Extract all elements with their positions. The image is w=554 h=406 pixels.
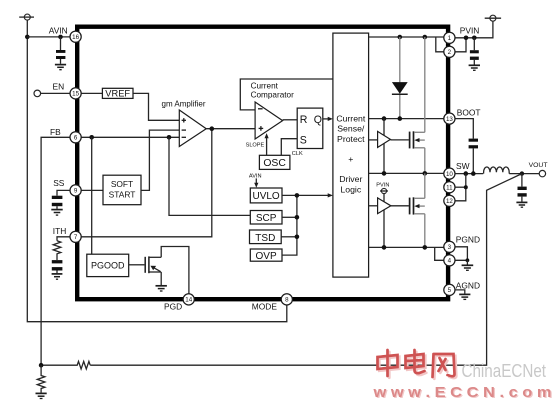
svg-text:5: 5 [448, 287, 452, 294]
svg-text:gm Amplifier: gm Amplifier [162, 100, 206, 109]
resistor R-FB-bottom vertical [37, 365, 45, 392]
svg-text:VREF: VREF [105, 89, 130, 99]
svg-text:SOFT: SOFT [111, 179, 133, 189]
pin 10 SW [444, 168, 455, 179]
block SOFT START [103, 175, 141, 205]
node FB to SCP junction [167, 135, 172, 140]
svg-text:3: 3 [448, 244, 452, 251]
node SW fet junction [423, 171, 428, 176]
terminal VOUT [539, 170, 545, 176]
svg-text:8: 8 [285, 297, 289, 304]
block PGOOD [87, 254, 129, 276]
capacitor C-SS [52, 196, 63, 209]
wire AVIN arrow into UVLO [254, 178, 258, 187]
capacitor C-ITH [52, 260, 63, 273]
wire AGND to ground [455, 290, 465, 294]
svg-text:S: S [300, 135, 307, 147]
node PGND driver junction [382, 245, 387, 250]
svg-text:ChinaECNet: ChinaECNet [462, 360, 547, 381]
svg-text:w w w . E C C N . c o m: w w w . E C C N . c o m [372, 384, 551, 401]
transistor high side NMOS [410, 131, 425, 148]
wire ITH external [57, 237, 70, 241]
wire SW pins strap [455, 174, 466, 201]
wire FB to PGOOD monitor [91, 137, 93, 254]
svg-text:PGOOD: PGOOD [91, 261, 125, 271]
buffer high side gate driver [378, 131, 391, 147]
node UVLO bus junction [295, 193, 300, 198]
inductor L1 [484, 167, 510, 174]
ground below C-PVIN [469, 65, 480, 70]
svg-text:PVIN: PVIN [460, 26, 480, 36]
wire PVIN external to power flag [455, 21, 493, 38]
pin 2 PVIN [444, 46, 455, 57]
ground PGND [462, 265, 474, 270]
pin 11 SW [444, 182, 455, 193]
label PGND [456, 235, 480, 245]
label CLK [292, 151, 303, 157]
wire SS pin to SOFT START [81, 189, 103, 191]
wire EN pin to VREF [81, 92, 102, 94]
svg-text:7: 7 [74, 234, 78, 241]
wire PGND rail [369, 247, 444, 260]
pin 15 EN [70, 88, 81, 99]
watermark ChinaECNet [462, 360, 547, 381]
ground below C-SS [51, 210, 62, 216]
pin 6 FB [70, 132, 81, 143]
svg-text:AVIN: AVIN [49, 26, 68, 36]
svg-text:MODE: MODE [252, 301, 278, 311]
wire comparator output to R input [283, 119, 298, 121]
pin 1 PVIN [444, 32, 455, 43]
label VOUT [529, 162, 548, 169]
svg-text:AVIN: AVIN [249, 173, 262, 179]
node BOOT cap SW junction [471, 171, 476, 176]
wire ITH internal to gm output [81, 129, 212, 237]
ground AGND [459, 294, 470, 299]
svg-text:10: 10 [446, 171, 453, 178]
wire inductor to VOUT [509, 173, 539, 175]
pin 16 AVIN [70, 31, 81, 42]
node PGND strap junction [466, 258, 470, 262]
label PVIN internal [376, 183, 389, 189]
node gm output ITH junction [210, 126, 215, 131]
svg-text:OSC: OSC [263, 158, 286, 169]
wire high side gate [390, 139, 409, 141]
wire protection bus to driver logic arrow [281, 193, 333, 255]
wire VIN rail down left side and along bottom to MODE pin [27, 20, 287, 322]
svg-text:Driver: Driver [339, 174, 362, 184]
capacitor C-VOUT [518, 174, 527, 202]
resistor R-ITH [53, 241, 61, 260]
label PGD [164, 301, 182, 311]
label AGND [456, 281, 480, 291]
node HS drain junction [423, 35, 428, 40]
svg-text:EN: EN [53, 82, 65, 92]
block UVLO [250, 188, 282, 203]
block Current Sense Protect Driver Logic [333, 33, 369, 277]
wire OSC clock to S input [281, 139, 297, 156]
block VREF [102, 88, 133, 98]
capacitor C-PVIN [470, 38, 479, 65]
svg-text:START: START [109, 190, 136, 200]
svg-text:CLK: CLK [292, 151, 303, 157]
node BOOT driver junction [382, 116, 387, 121]
wire SOFT START to gm amp input [141, 130, 179, 190]
watermark 中电网 drawn as strokes [378, 350, 457, 379]
svg-text:1: 1 [448, 35, 452, 42]
node AVIN cap junction [58, 35, 63, 40]
wire high side source to SW rail [424, 148, 426, 174]
svg-text:BOOT: BOOT [457, 108, 481, 118]
svg-text:ITH: ITH [53, 226, 67, 236]
svg-text:SS: SS [53, 178, 65, 188]
wire PGND to ground [466, 260, 468, 264]
label BOOT [457, 108, 481, 118]
svg-text:2: 2 [448, 49, 452, 56]
block SCP [250, 211, 282, 225]
IC body outline [77, 27, 448, 300]
ground below C-ITH [52, 274, 63, 279]
wire FB external down to divider [41, 137, 70, 365]
svg-text:Logic: Logic [340, 184, 361, 194]
ground below C-AVIN [55, 65, 66, 70]
wire gm output to current comparator [206, 128, 255, 130]
svg-text:AGND: AGND [456, 281, 480, 291]
node AVIN rail junction [25, 35, 30, 40]
svg-text:SLOPE: SLOPE [246, 142, 265, 148]
svg-text:6: 6 [74, 135, 78, 142]
pin 14 PGD [183, 294, 194, 305]
wire SW rail [369, 172, 444, 174]
svg-text:11: 11 [446, 185, 453, 192]
svg-text:PVIN: PVIN [376, 183, 389, 189]
wire internal PVIN rail to pin 1 [369, 37, 444, 52]
wire high side driver return to SW [383, 142, 385, 173]
node FB to PGOOD junction [89, 135, 94, 140]
label AVIN [49, 26, 68, 36]
node SW driver return junction [382, 171, 387, 176]
wire driver logic to low side driver input [369, 205, 378, 207]
capacitor C-AVIN [56, 37, 65, 64]
wire low side source to PGND rail [424, 214, 426, 248]
svg-text:VOUT: VOUT [529, 162, 548, 169]
wire low side drain to SW rail [424, 173, 426, 198]
wire feedback sense from VOUT to divider [90, 174, 522, 366]
label gm Amplifier [162, 100, 206, 109]
wire slope compensation arrow from OSC [265, 133, 269, 155]
node BOOT diode junction [398, 116, 403, 121]
pin 12 SW [444, 195, 455, 206]
pin 9 SS [70, 185, 81, 196]
svg-text:Sense/: Sense/ [337, 124, 365, 134]
label FB [50, 127, 61, 137]
wire FB to SCP [169, 137, 250, 215]
power flag PVIN internal [380, 188, 388, 201]
pin 8 MODE [281, 294, 292, 305]
node diode anode junction [398, 35, 403, 40]
label AVIN above UVLO [249, 173, 262, 179]
label SS [53, 178, 65, 188]
transistor low side NMOS [410, 197, 425, 214]
wire FB internal to gm amp inverting input [81, 136, 179, 138]
power flag PVIN top-right [485, 15, 501, 21]
svg-text:FB: FB [50, 127, 61, 137]
svg-text:Protect: Protect [337, 134, 365, 144]
svg-text:14: 14 [185, 297, 192, 304]
ground below C-VOUT [516, 202, 527, 207]
label ITH [53, 226, 67, 236]
svg-text:Current: Current [251, 82, 279, 91]
pin 3 PGND [444, 241, 455, 252]
svg-text:SW: SW [456, 161, 470, 171]
svg-text:Q: Q [314, 114, 322, 126]
node TSD bus junction [295, 235, 300, 240]
label SW [456, 161, 470, 171]
pin 13 BOOT [444, 113, 455, 124]
svg-text:OVP: OVP [256, 251, 277, 262]
diode bootstrap [392, 82, 408, 94]
wire BOOT rail [369, 118, 444, 120]
wire diode branch [399, 37, 401, 119]
svg-text:16: 16 [72, 34, 79, 41]
wire SS external [57, 190, 70, 195]
wire AVIN input [27, 36, 70, 38]
svg-text:SCP: SCP [256, 213, 277, 224]
wire PGOOD drain to PGD pin [161, 247, 189, 295]
wire driver logic to high side driver input [369, 139, 378, 141]
svg-text:PGD: PGD [164, 301, 182, 311]
svg-text:+: + [348, 154, 353, 164]
label PVIN [460, 26, 480, 36]
svg-text:4: 4 [448, 258, 452, 265]
block TSD [250, 230, 282, 244]
node PGND fet junction [423, 245, 428, 250]
wire PGOOD to fet gate [129, 264, 145, 266]
node FB divider junction [39, 363, 44, 368]
wire low side driver return to PGND [383, 210, 385, 247]
svg-text:Comparator: Comparator [251, 91, 295, 100]
svg-text:13: 13 [446, 116, 453, 123]
wire low side gate [391, 205, 409, 207]
wire pin 2 external strap [455, 38, 466, 52]
node SCP bus junction [295, 215, 300, 220]
pin 4 PGND [444, 255, 455, 266]
transistor PGOOD open drain NMOS [145, 256, 161, 273]
node SW strap junction [464, 171, 469, 176]
label box Current Comparator [240, 79, 333, 110]
ground below FB divider [36, 393, 47, 398]
wire Q output arrow into driver logic [323, 117, 333, 121]
capacitor C-BOOT [469, 139, 478, 174]
wire BOOT external to bootstrap cap [455, 119, 473, 139]
svg-text:PGND: PGND [456, 235, 480, 245]
svg-text:Current: Current [336, 113, 366, 123]
watermark www.ECCN.com [372, 384, 552, 402]
block OVP [250, 249, 282, 262]
svg-text:R: R [300, 114, 308, 126]
label MODE [252, 301, 278, 311]
pin 7 ITH [70, 231, 81, 242]
resistor R-FB-top horizontal [41, 361, 90, 369]
power flag VIN top-left [19, 14, 34, 20]
svg-text:UVLO: UVLO [252, 191, 279, 202]
buffer low side gate driver [378, 198, 391, 214]
wire PGOOD source to ground [160, 272, 162, 285]
wire PGND pins strap [455, 247, 468, 260]
pin 5 AGND [444, 284, 455, 295]
label EN [53, 82, 65, 92]
node VOUT junction [520, 171, 524, 175]
node PVIN strap junction [464, 36, 469, 41]
wire VREF to gm amp non-inverting input [133, 93, 179, 120]
svg-text:12: 12 [446, 198, 453, 205]
node PVIN cap junction [472, 36, 477, 41]
block OSC [259, 155, 290, 169]
svg-text:15: 15 [72, 91, 79, 98]
svg-text:TSD: TSD [255, 233, 275, 244]
terminal EN input [34, 90, 70, 97]
wire high side drain to PVIN rail [424, 37, 426, 132]
flip-flop R-S latch [297, 108, 323, 148]
wire SW external to inductor [455, 173, 483, 175]
op-amp gm amplifier [179, 110, 206, 147]
wire BOOT to high side driver supply [383, 119, 385, 136]
ground below PGOOD fet [156, 286, 167, 291]
label SLOPE [246, 142, 265, 148]
node SW strap pin 11 junction [464, 185, 468, 189]
comparator current comparator [255, 102, 283, 139]
svg-text:9: 9 [74, 188, 78, 195]
